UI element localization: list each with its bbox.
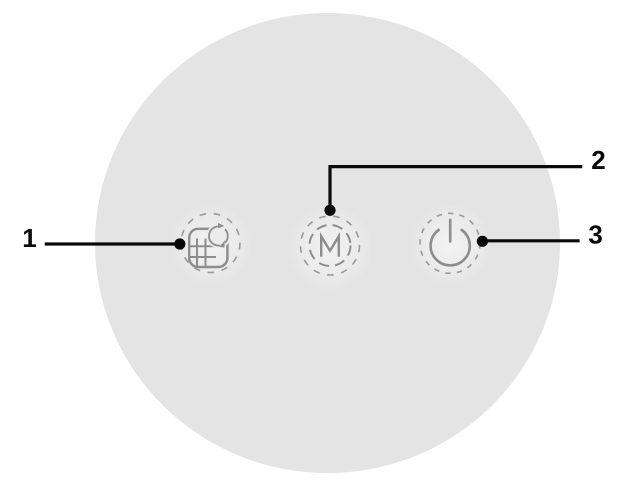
svg-text:2: 2	[591, 145, 605, 175]
svg-text:1: 1	[22, 223, 36, 253]
svg-text:3: 3	[588, 220, 602, 250]
